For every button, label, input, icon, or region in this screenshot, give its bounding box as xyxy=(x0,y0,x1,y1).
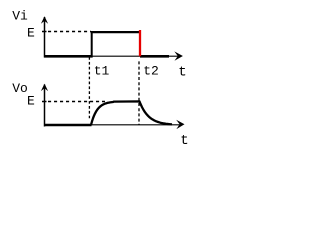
y-axis arrowhead (top plot) xyxy=(41,16,48,24)
wire: Vi zero-level after pulse xyxy=(140,55,169,58)
x-axis arrowhead (top plot) xyxy=(174,51,183,60)
E dashed level line (bottom plot) xyxy=(48,101,105,103)
dashed marker line at t2 xyxy=(138,61,140,125)
E tick (bottom plot) xyxy=(42,101,47,103)
svg-text:t2: t2 xyxy=(143,64,159,79)
svg-text:t1: t1 xyxy=(94,64,110,79)
wire: Vi zero-level before pulse xyxy=(44,55,93,58)
svg-text:Vi: Vi xyxy=(12,9,28,24)
dashed marker line at t1 xyxy=(88,57,90,118)
E dashed level line (top plot) xyxy=(48,31,91,33)
y-axis arrowhead (bottom plot) xyxy=(41,84,48,92)
x-axis thin (top plot) xyxy=(44,55,179,57)
wire: Vi pulse top at E xyxy=(91,31,141,33)
svg-text:E: E xyxy=(27,26,35,41)
E tick (top plot) xyxy=(42,31,47,33)
wire: Vi falling edge at t2 (red) xyxy=(139,30,141,56)
svg-text:Vo: Vo xyxy=(12,81,28,96)
svg-text:t: t xyxy=(178,64,186,80)
x-axis thin (bottom plot) xyxy=(44,124,181,126)
svg-text:t: t xyxy=(180,133,188,149)
svg-text:E: E xyxy=(27,94,35,109)
wire: Vo zero-level before t1 xyxy=(44,124,92,127)
y-axis (top plot) xyxy=(44,17,46,58)
curve: Vo exponential rise from t1, plateau at E, exponential decay from t2 xyxy=(91,101,172,125)
x-axis arrowhead (bottom plot) xyxy=(176,120,184,129)
y-axis (bottom plot) xyxy=(44,85,46,127)
wire: Vi pulse rising edge at t1 xyxy=(91,32,93,58)
